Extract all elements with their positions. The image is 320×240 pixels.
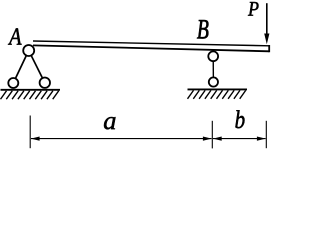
load P label bbox=[248, 2, 259, 16]
support A left leg bbox=[13, 51, 28, 84]
dimension b right arrowhead bbox=[257, 136, 266, 140]
dimension line a bbox=[31, 138, 212, 140]
roller circle left under A bbox=[8, 78, 18, 88]
load arrow P head bbox=[264, 34, 269, 45]
ground line under B bbox=[188, 88, 248, 90]
beam body bbox=[33, 41, 269, 51]
pin circle at A bbox=[23, 45, 34, 56]
dimension tick at A bbox=[29, 116, 31, 149]
load arrow P shaft bbox=[266, 3, 268, 36]
dimension tick at right end bbox=[265, 121, 267, 148]
node A label bbox=[8, 28, 22, 44]
node B label bbox=[197, 20, 208, 38]
roller circle right under A bbox=[40, 78, 50, 88]
beam right end cap bbox=[268, 45, 270, 52]
dimension line b bbox=[213, 138, 266, 140]
dimension tick at B bbox=[211, 121, 213, 149]
ground hatching under A bbox=[1, 91, 59, 99]
roller circle top at B bbox=[208, 51, 218, 61]
beam bottom line bbox=[33, 45, 269, 51]
dimension a right arrowhead bbox=[203, 136, 212, 140]
dimension b left arrowhead bbox=[213, 136, 222, 140]
dimension a label bbox=[104, 117, 116, 129]
roller circle bottom at B bbox=[209, 77, 218, 86]
ground line under A bbox=[1, 89, 61, 91]
roller link at B bbox=[212, 56, 214, 82]
dimension a left arrowhead bbox=[31, 136, 40, 140]
dimension b label bbox=[235, 110, 244, 128]
beam top line bbox=[33, 41, 269, 46]
support A right leg bbox=[29, 51, 45, 83]
ground hatching under B bbox=[188, 90, 246, 98]
